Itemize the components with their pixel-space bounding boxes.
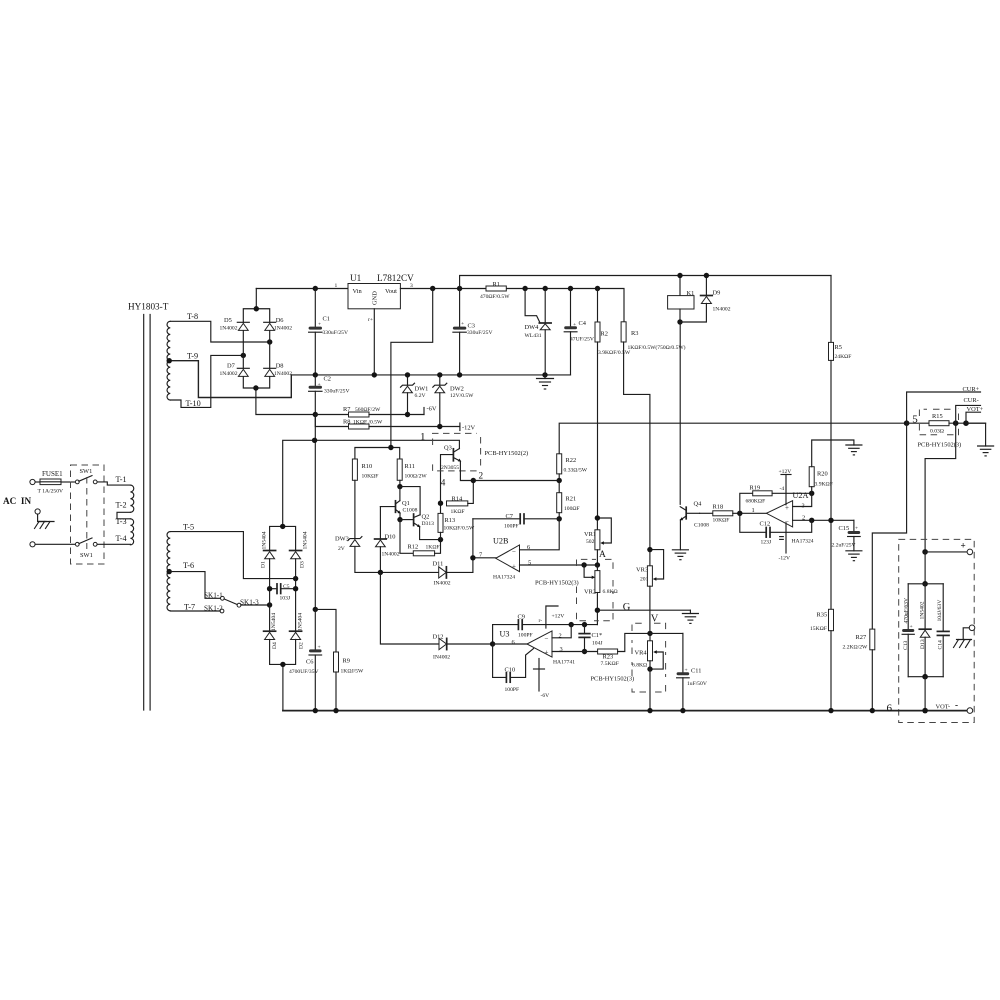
svg-text:L7812CV: L7812CV: [377, 273, 414, 283]
svg-text:1: 1: [752, 507, 755, 514]
svg-text:R21: R21: [566, 496, 577, 503]
svg-text:R3: R3: [631, 330, 638, 337]
transformer winding T-8/T-10: [167, 321, 170, 400]
svg-text:1N5404: 1N5404: [298, 613, 304, 631]
node pin2/C12: [809, 518, 814, 523]
winding series link T-2/T-3: [117, 512, 130, 519]
node D10 bottom: [378, 570, 383, 575]
svg-text:Q2: Q2: [422, 514, 430, 521]
svg-text:47UF/25V: 47UF/25V: [570, 337, 594, 343]
node DW4 ground: [542, 372, 547, 377]
svg-text:T 1A/250V: T 1A/250V: [38, 489, 64, 495]
diode D1: [261, 531, 276, 568]
svg-text:D5: D5: [224, 317, 232, 324]
node C4 top: [568, 286, 573, 291]
svg-text:4700UF/35V: 4700UF/35V: [289, 669, 319, 675]
svg-text:502: 502: [586, 539, 595, 545]
node K1 bottom: [677, 319, 682, 324]
potentiometer VR3: [636, 550, 664, 634]
node C3 top: [457, 286, 462, 291]
wire riser to K1 rail: [460, 276, 831, 289]
ground rail end: [978, 446, 994, 456]
svg-text:VR1: VR1: [584, 531, 596, 538]
node C3 bottom: [457, 372, 462, 377]
wire U3 pin3 to R23: [552, 651, 598, 653]
resistor R10: [352, 459, 378, 480]
transistor Q4: [680, 501, 709, 550]
svg-text:1N5404: 1N5404: [302, 531, 308, 549]
diode D8: [264, 362, 293, 377]
svg-text:WL431: WL431: [525, 333, 542, 339]
svg-text:R9: R9: [343, 658, 350, 665]
node 1 junction: [312, 438, 317, 443]
svg-text:100Ω/2W: 100Ω/2W: [405, 474, 428, 480]
svg-text:D2: D2: [298, 642, 304, 649]
node VR4 bottom: [647, 666, 652, 671]
svg-text:+12V: +12V: [552, 614, 565, 620]
wire U2B output: [473, 557, 496, 559]
svg-text:6: 6: [887, 703, 893, 715]
svg-text:15KΩF: 15KΩF: [810, 626, 827, 632]
svg-text:C4: C4: [579, 320, 587, 327]
node C1/C2 midpoint: [313, 372, 318, 377]
svg-text:-4: -4: [780, 486, 785, 492]
PCB-HY1502(2) dashed box: [433, 433, 481, 471]
node C1* top: [582, 622, 587, 627]
svg-text:100PF: 100PF: [518, 633, 533, 639]
resistor R5: [829, 276, 852, 361]
zener DW2: [433, 375, 474, 427]
svg-text:C1008: C1008: [694, 523, 709, 529]
svg-text:IN4002: IN4002: [433, 655, 450, 661]
fuse FUSE1: [35, 470, 63, 495]
node R2 top: [595, 286, 600, 291]
potentiometer VR1: [584, 518, 611, 565]
svg-text:R10: R10: [362, 463, 373, 470]
svg-text:D313: D313: [422, 521, 435, 527]
node +12V feed: [388, 445, 393, 450]
wire lower bridge right mid: [295, 559, 297, 631]
svg-text:C1*: C1*: [592, 632, 603, 639]
resistor R20: [809, 467, 833, 494]
node G junction: [595, 608, 600, 613]
potentiometer VR2: [584, 565, 618, 625]
wire bridge left mid: [242, 331, 244, 369]
node R19/R20/pin3: [809, 491, 814, 496]
svg-text:+: +: [855, 526, 858, 532]
node lower bridge positive: [280, 524, 285, 529]
resistor R21: [557, 481, 580, 519]
node C13 bus bottom: [922, 674, 928, 680]
terminal AC live: [30, 479, 35, 484]
node lower bridge negative: [280, 662, 285, 667]
resistor R8: [315, 415, 460, 430]
svg-text:C12: C12: [760, 521, 771, 528]
svg-text:7.5KΩF: 7.5KΩF: [601, 661, 619, 667]
node rail VR4: [647, 708, 652, 713]
node K1 top: [677, 273, 682, 278]
node U3 output: [490, 641, 495, 646]
capacitor C9: [493, 614, 598, 639]
switch SW1 bottom pole: [75, 538, 97, 559]
svg-text:T-10: T-10: [186, 399, 201, 408]
wire Q1 emitter to Q2 base: [400, 519, 414, 521]
ground R20: [846, 445, 862, 455]
svg-text:1KΩF: 1KΩF: [426, 545, 440, 551]
node DW4 ref: [522, 286, 527, 291]
resistor R18: [700, 504, 767, 524]
svg-text:R12: R12: [408, 544, 419, 551]
svg-text:3.9KΩF/0.5W: 3.9KΩF/0.5W: [598, 350, 631, 356]
svg-text:D1: D1: [261, 561, 267, 568]
capacitor C1: [309, 289, 348, 375]
node R15 right CUR-: [953, 420, 959, 426]
svg-text:1N4002: 1N4002: [220, 326, 238, 332]
svg-text:R1: R1: [493, 281, 500, 288]
wire T-8 to bridge right branch: [170, 321, 269, 342]
svg-text:R2: R2: [601, 331, 608, 338]
svg-text:HA17324: HA17324: [493, 575, 515, 581]
svg-text:+: +: [512, 563, 516, 571]
svg-text:PCB-HY1502(3): PCB-HY1502(3): [535, 580, 579, 587]
wire T-9 to C1/C2 midpoint: [169, 361, 291, 398]
wire T-6 to SK1-1: [169, 572, 220, 599]
node rail R27: [870, 708, 875, 713]
wire Q3 emitter node2: [460, 461, 559, 480]
diode D9: [680, 276, 731, 323]
svg-text:AC IN: AC IN: [3, 496, 31, 506]
svg-text:T-4: T-4: [116, 534, 127, 543]
wire U2B noninverting line5: [520, 564, 598, 566]
wire lower bridge top bus: [270, 526, 296, 550]
transistor Q1: [380, 487, 417, 520]
svg-text:10KΩF: 10KΩF: [362, 474, 379, 480]
svg-text:SW1: SW1: [80, 468, 93, 475]
node 2 left: [471, 478, 476, 483]
capacitor C7: [473, 513, 559, 530]
wire C13 top bus: [908, 583, 943, 585]
relay K1: [668, 276, 695, 323]
wire CUR- line: [956, 405, 981, 423]
wire U1 GND to 0V: [373, 309, 375, 375]
wire U2A pin2: [793, 519, 854, 521]
svg-text:R23: R23: [603, 654, 614, 661]
svg-text:C2: C2: [324, 376, 331, 383]
svg-text:1uF/50V: 1uF/50V: [687, 681, 707, 687]
node Q1 emitter / Q2 base: [397, 517, 402, 522]
svg-text:-6V: -6V: [427, 406, 437, 413]
svg-text:4: 4: [441, 478, 446, 488]
wire SW1 to T-1: [97, 482, 130, 485]
svg-text:2: 2: [559, 633, 562, 640]
svg-text:6.8KΩ: 6.8KΩ: [632, 663, 647, 669]
resistor R12: [400, 520, 441, 556]
diode D2: [290, 613, 305, 649]
svg-text:Vin: Vin: [353, 288, 363, 295]
wire T-4 to SW1: [97, 543, 130, 545]
switch SW1 dashed enclosure: [71, 465, 105, 564]
wire U3 V+: [546, 606, 564, 628]
svg-text:1: 1: [420, 431, 426, 443]
svg-text:D11: D11: [433, 561, 444, 568]
node D5/D7 junction: [241, 353, 246, 358]
transformer primary winding T-3/T-4: [130, 519, 133, 545]
svg-text:103J: 103J: [280, 596, 291, 602]
svg-text:1KΩF/0.5W(750Ω/0.5W): 1KΩF/0.5W(750Ω/0.5W): [628, 344, 686, 351]
svg-text:2.2uF/25V: 2.2uF/25V: [832, 543, 856, 549]
node R13 bottom: [438, 537, 443, 542]
svg-text:R15: R15: [932, 413, 943, 420]
svg-text:D4: D4: [272, 642, 278, 649]
wire Vout rail: [400, 289, 624, 322]
node rail output minus: [922, 708, 928, 714]
wire R11 to Q1/Q2 collectors: [399, 480, 401, 486]
svg-text:VR4: VR4: [635, 650, 648, 657]
node U1 GND: [372, 372, 377, 377]
svg-text:A: A: [599, 550, 606, 560]
svg-text:C15: C15: [839, 525, 850, 532]
diode D11: [433, 561, 473, 587]
wire lower bridge left mid: [269, 559, 271, 631]
svg-text:R35: R35: [817, 612, 828, 619]
svg-text:1N5404: 1N5404: [271, 613, 277, 631]
svg-text:r-: r-: [539, 618, 543, 624]
wire VR4 to bottom rail: [649, 669, 651, 711]
svg-text:10KΩF: 10KΩF: [713, 518, 730, 524]
node T-6 tap: [167, 569, 172, 574]
svg-text:GND: GND: [372, 291, 379, 305]
svg-text:VOT+: VOT+: [967, 406, 984, 413]
wire K1 to Q4 collector: [679, 322, 681, 504]
svg-text:100PF: 100PF: [505, 687, 520, 693]
svg-text:-6V: -6V: [541, 693, 550, 699]
svg-text:T-6: T-6: [183, 561, 194, 570]
svg-text:D12: D12: [433, 634, 444, 641]
wire R20 to ground: [812, 440, 854, 467]
wire C13 bottom bus: [908, 676, 943, 678]
resistor R7: [315, 406, 424, 417]
svg-text:1: 1: [335, 283, 338, 289]
wire D11 to U2B output: [472, 519, 474, 573]
svg-text:D13: D13: [920, 639, 926, 649]
node D9 top: [704, 273, 709, 278]
wire bridge bottom bus: [243, 377, 315, 415]
node T-9 tap: [167, 358, 172, 363]
node D6/D8 junction: [267, 339, 272, 344]
transformer winding T-5/T-7: [167, 532, 170, 611]
node C1 top: [313, 286, 318, 291]
wire rail end to ground: [966, 423, 986, 446]
terminal output plus: [967, 549, 973, 555]
svg-text:VR2: VR2: [584, 589, 596, 596]
wire U3 pin2: [552, 625, 571, 638]
wire +12V distribution R10/R11: [355, 448, 400, 460]
svg-text:D7: D7: [227, 362, 236, 369]
node rail/CUR+ riser: [904, 420, 910, 426]
svg-text:CUR-: CUR-: [964, 397, 979, 404]
resistor R13: [438, 503, 475, 539]
node DW1 bottom: [405, 412, 410, 417]
svg-text:330uF/25V: 330uF/25V: [467, 330, 493, 336]
wire 0V rail: [291, 374, 570, 376]
wire voltage sense down: [925, 423, 956, 552]
wire T-5 to bridge right: [170, 532, 295, 579]
resistor R22: [557, 454, 588, 481]
node Vout step: [430, 286, 435, 291]
svg-text:C1: C1: [323, 316, 330, 323]
svg-text:C13: C13: [903, 640, 909, 650]
potentiometer VR4: [632, 633, 663, 669]
diode D7: [220, 362, 250, 377]
svg-text:104J: 104J: [592, 641, 603, 647]
svg-text:T-1: T-1: [116, 475, 127, 484]
op-amp U3: [500, 630, 576, 666]
svg-text:1N4002: 1N4002: [274, 326, 292, 332]
svg-text:2: 2: [479, 471, 484, 481]
node R21/C7: [557, 516, 562, 521]
svg-text:FUSE1: FUSE1: [42, 470, 63, 478]
output dashed box: [899, 539, 975, 722]
svg-text:680KΩF: 680KΩF: [746, 499, 766, 505]
svg-text:R20: R20: [817, 471, 828, 478]
svg-text:−: −: [512, 548, 516, 556]
node U3 pin3: [582, 649, 587, 654]
node DW2 bottom: [437, 424, 442, 429]
net tick -12V: [460, 423, 476, 432]
wire Vout to +12V distribution: [391, 289, 433, 448]
svg-text:PCB-HY1502(3): PCB-HY1502(3): [591, 676, 635, 683]
resistor R23: [598, 633, 650, 667]
ground C15: [846, 551, 862, 561]
node Q1 collector: [397, 484, 402, 489]
svg-text:T-8: T-8: [187, 312, 198, 321]
wire R2 to VR1: [597, 342, 599, 518]
svg-text:Q3: Q3: [444, 445, 452, 452]
svg-text:1N5404: 1N5404: [262, 531, 268, 549]
svg-text:DW1: DW1: [415, 386, 429, 393]
svg-text:123J: 123J: [761, 540, 772, 546]
terminal chassis output: [969, 625, 975, 631]
svg-text:+: +: [545, 649, 549, 657]
svg-text:DW4: DW4: [525, 324, 540, 331]
wire D10 node to D12: [380, 572, 439, 644]
node rail R35: [828, 708, 833, 713]
chassis ground output: [954, 628, 972, 648]
svg-text:G: G: [623, 602, 631, 613]
regulator U1 L7812CV: [335, 273, 415, 323]
svg-text:R13: R13: [445, 517, 456, 524]
svg-text:Q4: Q4: [694, 501, 703, 508]
svg-text:r+: r+: [368, 317, 373, 323]
svg-text:6: 6: [512, 639, 515, 646]
resistor R2: [595, 289, 631, 357]
node rail R9: [333, 708, 338, 713]
wire U3 V-: [534, 659, 550, 700]
svg-text:0.33Ω/5W: 0.33Ω/5W: [564, 468, 588, 474]
node rail C11: [680, 708, 685, 713]
svg-text:HA17324: HA17324: [792, 539, 814, 545]
svg-text:-12V: -12V: [462, 425, 476, 432]
node bridge negative: [253, 385, 258, 390]
svg-text:0.03Ω: 0.03Ω: [930, 429, 944, 435]
svg-text:T-2: T-2: [116, 501, 127, 510]
diode D4: [264, 613, 278, 649]
ground below DW4: [537, 375, 554, 389]
terminal AC neutral: [30, 542, 35, 547]
svg-text:U1: U1: [350, 273, 362, 283]
svg-text:10KΩF/0.5W: 10KΩF/0.5W: [444, 526, 475, 532]
capacitor C12: [740, 513, 812, 545]
op-amp U2A: [752, 491, 814, 545]
svg-text:-: -: [955, 700, 958, 710]
wire node4 to Q3 base: [441, 455, 454, 504]
wire node1 line: [283, 440, 460, 526]
svg-text:1N4002: 1N4002: [382, 552, 400, 558]
wire Vin rail: [256, 288, 348, 290]
capacitor C4: [564, 289, 594, 375]
wire T-7 to SK1-2: [170, 610, 220, 612]
transformer core lines: [144, 315, 150, 711]
resistor R1: [480, 281, 510, 300]
svg-text:R18: R18: [713, 504, 724, 511]
svg-text:-12V: -12V: [779, 556, 791, 562]
svg-text:100ΩF: 100ΩF: [564, 506, 580, 512]
svg-text:470ΩF/0.5W: 470ΩF/0.5W: [480, 294, 510, 300]
ground G: [682, 610, 698, 623]
diode D12: [433, 634, 493, 661]
svg-text:DW2: DW2: [450, 386, 464, 393]
svg-text:6.8KΩ: 6.8KΩ: [603, 589, 618, 595]
svg-text:+: +: [461, 321, 464, 327]
svg-text:330uF/25V: 330uF/25V: [324, 389, 350, 395]
svg-text:+: +: [961, 541, 966, 551]
node U3 pin2 riser: [569, 622, 574, 627]
svg-text:VOT-: VOT-: [936, 704, 951, 711]
svg-text:Q1: Q1: [402, 500, 410, 507]
node C13 bus top: [922, 581, 928, 587]
terminal AC earth: [35, 509, 40, 514]
wire sense to C13 bus: [924, 552, 926, 584]
resistor R9: [315, 609, 364, 710]
chassis ground AC earth: [35, 514, 55, 528]
node pin2/R5: [828, 518, 833, 523]
zener DW3: [335, 536, 439, 573]
node VR2 wiper line: [581, 562, 586, 567]
node bridge positive: [254, 306, 259, 311]
svg-text:R22: R22: [566, 457, 577, 464]
resistor R11: [397, 459, 427, 480]
node output plus: [922, 549, 928, 555]
svg-text:1KΩF /0.5W: 1KΩF /0.5W: [353, 420, 383, 426]
wire bottom rail: [283, 710, 967, 712]
svg-text:U2A: U2A: [793, 491, 809, 500]
capacitor C14: [937, 584, 949, 677]
node VR3 top: [647, 547, 652, 552]
svg-text:1N4002: 1N4002: [713, 307, 731, 313]
svg-text:12V/0.5W: 12V/0.5W: [450, 393, 474, 399]
diode D13: [919, 584, 931, 677]
node VR2 top: [595, 562, 600, 567]
PCB-HY1502(3) bracket R15: [919, 409, 958, 435]
svg-text:330uF/25V: 330uF/25V: [323, 330, 349, 336]
svg-text:T-5: T-5: [183, 523, 194, 532]
svg-text:U2B: U2B: [493, 537, 509, 546]
node VOT+ riser: [963, 420, 969, 426]
resistor R27: [843, 629, 875, 711]
wire VOT+ line: [966, 412, 981, 423]
capacitor C2: [309, 375, 350, 395]
node SK1-3 at D1/D4: [267, 602, 272, 607]
